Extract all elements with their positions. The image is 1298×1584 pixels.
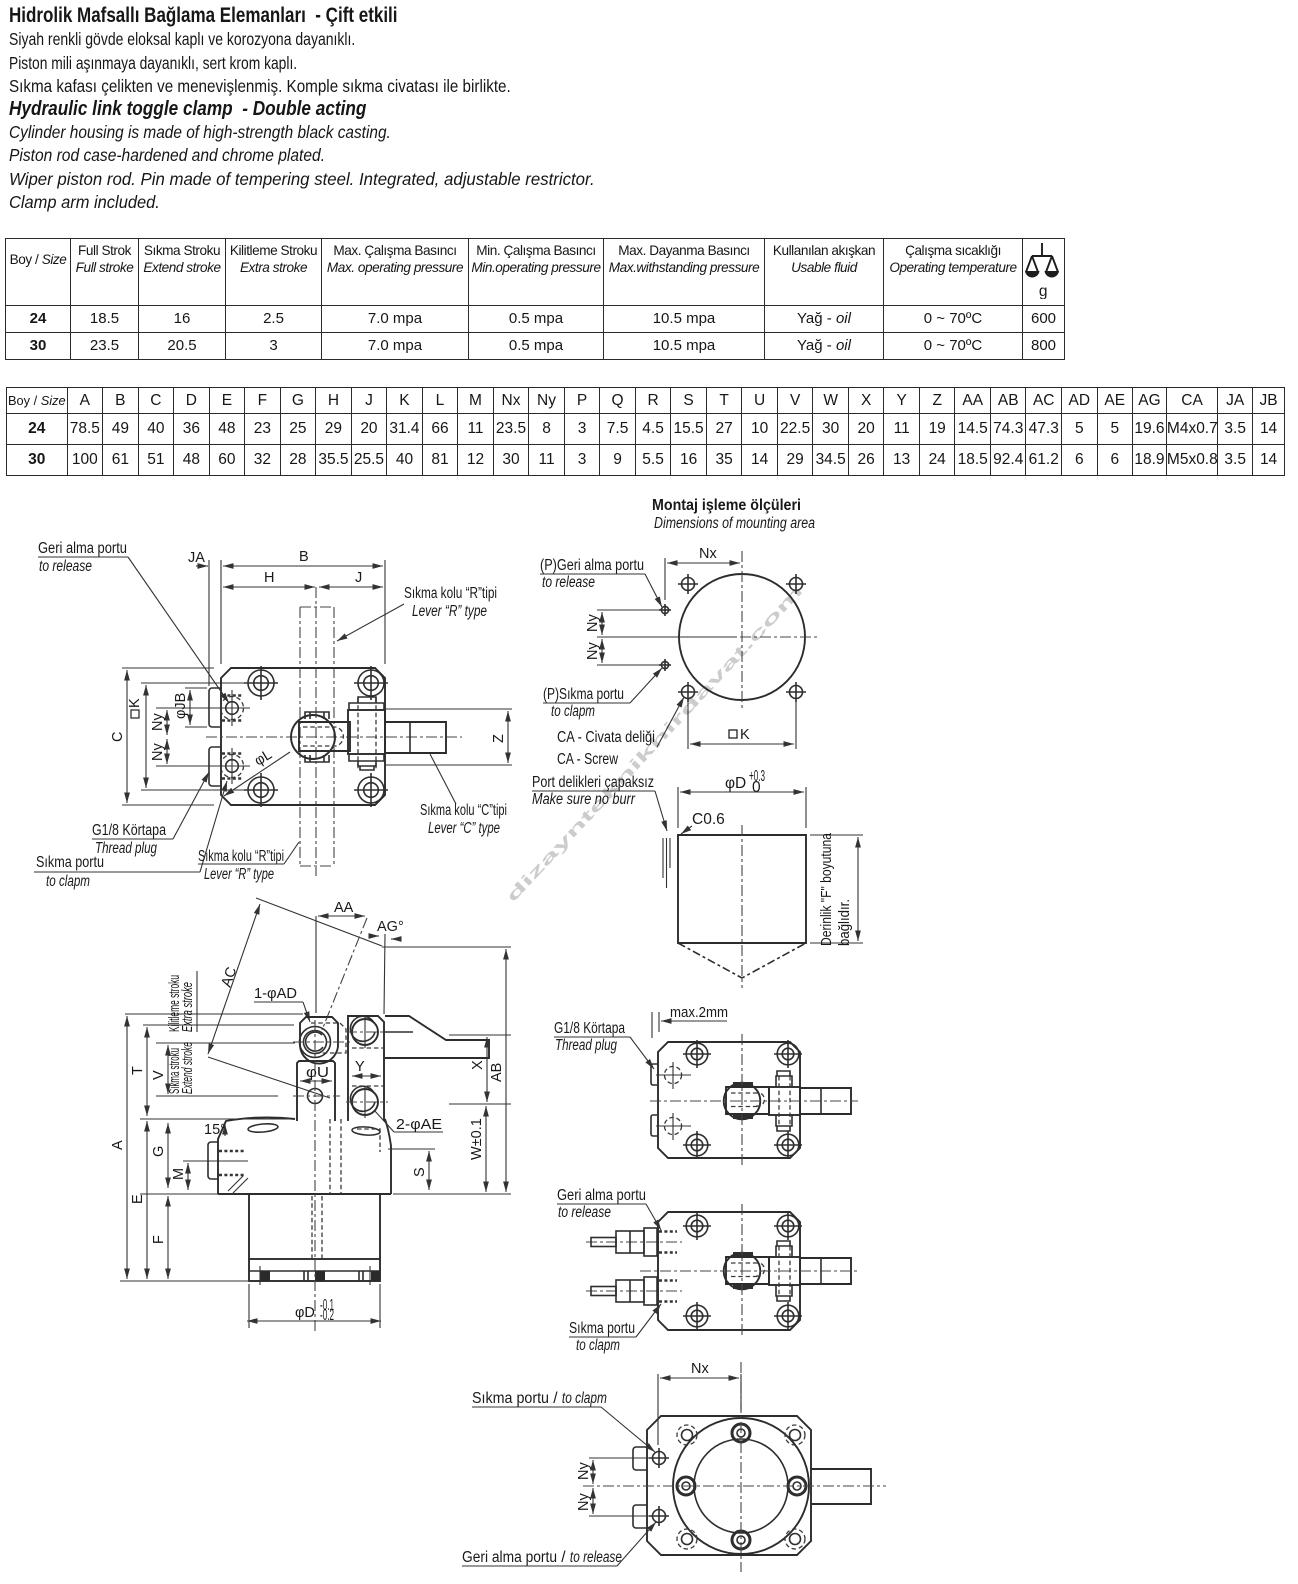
svg-text:to release: to release (39, 558, 92, 575)
bolt hole top-left (244, 666, 278, 700)
main vertical centerline (314, 1020, 316, 1333)
dim Ny Ny (589, 1457, 649, 1459)
bottom flange (249, 1259, 380, 1281)
bolt hole BL (683, 1131, 711, 1159)
mounting circle (679, 574, 805, 700)
left dim G (167, 1123, 169, 1188)
bolt above block (349, 697, 384, 710)
port circle lower (649, 1506, 669, 1526)
centerline horizontal (600, 636, 817, 638)
hidden rod in body (329, 1119, 331, 1194)
svg-text:E: E (130, 1194, 146, 1204)
hole rectangle (678, 835, 806, 943)
svg-text:Extend stroke: Extend stroke (180, 1042, 196, 1094)
svg-text:2-φAE: 2-φAE (396, 1117, 442, 1133)
svg-text:AB: AB (489, 1063, 505, 1082)
dim H J (223, 586, 315, 588)
dim Nx (657, 1374, 659, 1445)
hatch marks (228, 1176, 248, 1193)
dim C left (122, 667, 214, 669)
svg-text:φL: φL (252, 747, 275, 770)
svg-text:φD: φD (295, 1305, 315, 1321)
dim Ny Ny (597, 609, 659, 611)
label 2-phi AE (374, 1110, 394, 1132)
pivot ring inner C (306, 1032, 323, 1051)
svg-text:Ny: Ny (585, 614, 601, 632)
dim Nx (664, 558, 666, 600)
svg-text:φJB: φJB (173, 693, 189, 719)
svg-text:Dimensions of mounting area: Dimensions of mounting area (654, 515, 815, 532)
svg-text:(P)Sıkma portu: (P)Sıkma portu (543, 686, 624, 703)
svg-text:Sıkma portu: Sıkma portu (36, 854, 104, 871)
centerline vertical (741, 551, 743, 709)
left bump upper (651, 1064, 658, 1085)
dim max 2mm (651, 1012, 653, 1038)
svg-text:bağlıdır.: bağlıdır. (837, 899, 853, 946)
svg-text:V: V (151, 1070, 167, 1080)
svg-text:AG°: AG° (377, 919, 404, 935)
dim phi JB (185, 687, 207, 689)
tower bearing housing (300, 1017, 338, 1064)
inner circle (694, 1439, 788, 1533)
header Turkish text (9, 4, 398, 28)
depth F dimension right (810, 834, 863, 836)
bolt hole TR (774, 1212, 802, 1240)
slot ellipse right (352, 1126, 380, 1136)
svg-text:Thread plug: Thread plug (95, 840, 157, 857)
left bump upper (633, 1447, 647, 1470)
fitting upper (586, 1228, 682, 1256)
bolt hole CA bottom-left (678, 682, 698, 702)
svg-text:φD: φD (725, 775, 746, 792)
flange bolt right (788, 1477, 806, 1495)
svg-text:M: M (171, 1168, 187, 1180)
pivot ring mid (304, 1031, 327, 1054)
svg-text:T: T (130, 1066, 146, 1075)
left bump lower (651, 1115, 658, 1136)
svg-text:S: S (412, 1167, 428, 1177)
port hole P release (659, 604, 671, 616)
svg-text:B: B (299, 549, 309, 565)
port thread dashes (219, 1150, 245, 1153)
hidden edges in column (352, 1047, 384, 1049)
body shoulder arch (218, 1117, 391, 1194)
svg-text:max.2mm: max.2mm (670, 1005, 728, 1021)
svg-text:to release: to release (542, 574, 595, 591)
svg-text:Lever “R” type: Lever “R” type (412, 603, 487, 620)
bolt hole BR (774, 1131, 802, 1159)
svg-text:Sıkma portu / to clapm: Sıkma portu / to clapm (472, 1390, 607, 1407)
corner hole TR (785, 1425, 805, 1445)
centerline (741, 825, 743, 988)
svg-text:Ny: Ny (576, 1493, 592, 1511)
dim Ny Ny left (156, 707, 214, 709)
corner hole TL (677, 1425, 697, 1445)
dim AA (318, 915, 365, 917)
svg-text:G1/8 Körtapa: G1/8 Körtapa (554, 1020, 625, 1037)
body octagon (647, 1416, 811, 1555)
flange bolt left (677, 1477, 695, 1495)
port circle upper (649, 1448, 669, 1468)
hub circle (291, 715, 335, 759)
port boss lower (209, 747, 221, 786)
watermark dizaynteknikhirdavat.com (center) (503, 583, 806, 906)
left dim T (146, 1027, 148, 1116)
port thread upper (214, 690, 250, 726)
port boss upper (209, 688, 221, 727)
centerlines (640, 1270, 858, 1272)
piston rod hidden (311, 1196, 313, 1258)
svg-text:Sıkma kolu “R”tipi: Sıkma kolu “R”tipi (404, 585, 497, 602)
arm (800, 1088, 851, 1114)
swung arm lower edge (208, 1057, 330, 1098)
flange bolt bottom (732, 1531, 750, 1549)
left dim V (167, 1045, 169, 1094)
svg-text:φU: φU (306, 1065, 329, 1081)
left dim E (146, 1121, 148, 1279)
rod centerline (315, 587, 317, 876)
dim AC diagonal (208, 904, 260, 1054)
svg-text:Ny: Ny (150, 713, 166, 731)
svg-text:K: K (127, 698, 143, 708)
svg-text:JA: JA (188, 550, 205, 566)
svg-text:G1/8 Körtapa: G1/8 Körtapa (92, 822, 166, 839)
hub top nut (305, 712, 329, 719)
port thread lower (214, 748, 250, 784)
swung rod axis (322, 918, 367, 1030)
dim W (485, 1106, 487, 1192)
svg-text:Montaj işleme ölçüleri: Montaj işleme ölçüleri (652, 497, 801, 514)
clamp arm (385, 1016, 489, 1058)
svg-text:Geri alma portu / to release: Geri alma portu / to release (462, 1549, 622, 1566)
svg-text:A: A (110, 1140, 126, 1150)
lever R rod vertical (phantom) (299, 607, 301, 866)
flange bolt top (732, 1424, 750, 1442)
svg-text:C: C (110, 732, 126, 742)
label P sikma portu (543, 668, 662, 720)
pivot ring outer (300, 1027, 331, 1058)
bolt hole TL (683, 1040, 711, 1068)
cylinder (249, 1194, 380, 1259)
swung arm upper edge (256, 898, 382, 946)
bolt hole TL (683, 1212, 711, 1240)
header English text (9, 98, 366, 121)
bolt hole bottom-right (354, 773, 388, 807)
svg-text:F: F (151, 1235, 167, 1244)
svg-text:Ny: Ny (585, 642, 601, 660)
svg-text:Geri alma portu: Geri alma portu (38, 540, 127, 557)
outer circle (673, 1418, 809, 1554)
drill point (678, 943, 806, 978)
svg-text:Port delikleri çapaksız: Port delikleri çapaksız (532, 774, 654, 791)
svg-text:Derinlik "F" boyutuna: Derinlik "F" boyutuna (819, 832, 835, 946)
centerlines (650, 1100, 858, 1102)
link block (299, 722, 350, 751)
svg-text:Ny: Ny (150, 743, 166, 761)
clamp block (348, 710, 385, 754)
svg-text:15°: 15° (204, 1122, 226, 1138)
bolt hole BR (774, 1302, 802, 1330)
svg-text:Extra stroke: Extra stroke (180, 982, 196, 1032)
dim Z right (386, 708, 512, 710)
svg-text:Nx: Nx (699, 546, 717, 562)
svg-text:Thread plug: Thread plug (555, 1037, 617, 1054)
svg-text:K: K (740, 727, 750, 743)
label P geri alma portu (540, 557, 662, 607)
svg-text:CA - Screw: CA - Screw (557, 751, 619, 768)
svg-text:Y: Y (355, 1059, 365, 1075)
pivot centerline h (293, 1041, 352, 1043)
svg-text:to clapm: to clapm (576, 1337, 620, 1354)
bolt below block (349, 754, 384, 770)
dim AB (505, 949, 507, 1192)
svg-text:AA: AA (334, 900, 354, 916)
neck (297, 1061, 335, 1121)
thread port upper (dashed) (656, 1062, 691, 1089)
body (658, 1212, 800, 1330)
svg-text:0: 0 (752, 779, 761, 796)
left bump lower (633, 1505, 647, 1528)
svg-text:Sıkma portu: Sıkma portu (569, 1320, 635, 1337)
svg-text:(P)Geri alma portu: (P)Geri alma portu (540, 557, 644, 574)
svg-text:to release: to release (558, 1204, 611, 1221)
bolt hole CA top-right (786, 574, 806, 594)
bolt hole BL (683, 1302, 711, 1330)
svg-text:Sıkma kolu “R”tipi: Sıkma kolu “R”tipi (198, 848, 284, 865)
body (658, 1042, 800, 1158)
bolt hole bottom-left (244, 773, 278, 807)
svg-text:Nx: Nx (691, 1361, 709, 1377)
arm (800, 1258, 851, 1284)
svg-text:W±0.1: W±0.1 (469, 1118, 485, 1160)
bolt hole top-right (354, 666, 388, 700)
hub (724, 1083, 761, 1120)
horizontal centerline body (206, 736, 462, 738)
no-burr ticks (662, 838, 664, 878)
svg-text:C0.6: C0.6 (692, 811, 725, 828)
port boss M (208, 1142, 218, 1179)
right ext lines (382, 946, 511, 948)
hub bottom nut (305, 755, 329, 762)
svg-text:to clapm: to clapm (551, 703, 595, 720)
dim phi D bottom (248, 1284, 250, 1328)
svg-text:-0.2: -0.2 (320, 1307, 334, 1324)
dim square K (687, 700, 689, 749)
dim X (486, 1037, 488, 1102)
centerlines (583, 1485, 886, 1487)
slot ellipse left (248, 1123, 279, 1134)
svg-text:Make sure no burr: Make sure no burr (532, 791, 636, 808)
svg-text:1-φAD: 1-φAD (254, 986, 297, 1002)
M ref line (183, 1160, 248, 1162)
clamp block (769, 1087, 800, 1115)
svg-text:J: J (355, 570, 362, 586)
dim S (428, 1151, 430, 1190)
corner hole BL (677, 1529, 697, 1549)
svg-text:Sıkma kolu “C”tipi: Sıkma kolu “C”tipi (420, 802, 507, 819)
body square (221, 668, 385, 805)
table 1: specifications (5, 238, 1065, 360)
label CA civata deligi / screw (557, 697, 684, 768)
ext lines left (140, 1118, 295, 1120)
column bolt bottom (346, 1086, 388, 1118)
hidden pocket right (357, 1129, 380, 1152)
left dim F (167, 1196, 169, 1279)
arm (811, 1469, 871, 1504)
table 2: dimensions (6, 387, 1285, 476)
bolt hole CA bottom-right (786, 682, 806, 702)
corner hole BR (785, 1529, 805, 1549)
dim JA + B top (208, 560, 210, 686)
dim square K left (141, 682, 250, 684)
rod centerline ext (315, 916, 317, 1013)
bolt hole TR (774, 1040, 802, 1068)
left dim A (126, 1016, 128, 1279)
left dim M (187, 1163, 189, 1190)
hub (724, 1253, 761, 1290)
svg-text:CA - Civata deliği: CA - Civata deliği (557, 729, 655, 746)
svg-text:to clapm: to clapm (46, 873, 90, 890)
svg-text:H: H (264, 570, 274, 586)
column bolt top (346, 1016, 388, 1048)
svg-text:Lever “C” type: Lever “C” type (428, 820, 500, 837)
fitting lower (586, 1277, 682, 1305)
bolt hole CA top-left (678, 574, 698, 594)
clamp block (769, 1257, 800, 1285)
phi U hole (308, 1089, 323, 1104)
clamp arm C-type (385, 722, 446, 753)
link hidden rect (311, 1023, 346, 1053)
port hole P clamp (659, 659, 671, 671)
svg-text:Geri alma portu: Geri alma portu (557, 1187, 646, 1204)
stroke reference lines (125, 1013, 303, 1015)
svg-text:Z: Z (491, 734, 507, 743)
swung arm right edge (384, 934, 385, 1014)
svg-text:Lever “R” type: Lever “R” type (204, 866, 274, 883)
svg-text:G: G (151, 1146, 167, 1157)
thread port lower (dashed) (656, 1113, 691, 1140)
svg-text:Ny: Ny (576, 1462, 592, 1480)
svg-text:X: X (470, 1060, 486, 1070)
bolt column (348, 1016, 384, 1121)
